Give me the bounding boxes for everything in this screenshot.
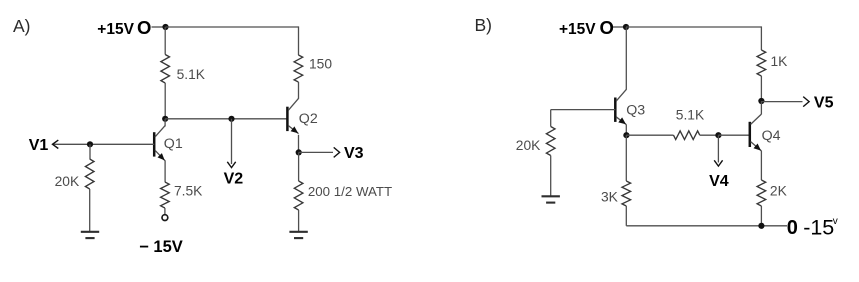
ground symbol (B) xyxy=(542,196,560,202)
node label V3 xyxy=(344,145,364,162)
svg-text:5.1K: 5.1K xyxy=(676,107,705,122)
node label V5 xyxy=(814,95,834,112)
transistor Q2 emitter arrow xyxy=(291,126,299,133)
wire: bottom rail (B) xyxy=(626,225,787,227)
wire: top rail (A) xyxy=(166,26,299,28)
transistor Q4 base bar xyxy=(749,122,752,147)
supply label 0 -15V (B) xyxy=(787,216,838,240)
wire: V1 base wire xyxy=(53,143,155,145)
value label 5.1K (A) xyxy=(177,67,206,82)
resistor 5.1K (A) xyxy=(161,55,170,84)
wire: node to R 5.1K top (A) xyxy=(164,27,166,55)
transistor Q2 base bar xyxy=(286,107,289,131)
wire: V4 probe line xyxy=(717,135,719,162)
circuit label B) xyxy=(475,15,493,35)
wire: +15V terminal to node (B) xyxy=(613,26,626,28)
svg-text:A): A) xyxy=(13,16,31,36)
wire: base rail Q1-collector to Q2 base xyxy=(165,118,287,120)
terminal circle -15V xyxy=(162,215,168,221)
supply +15V terminal (B) xyxy=(559,17,614,38)
svg-text:2K: 2K xyxy=(770,184,788,199)
supply +15V terminal (A) xyxy=(97,17,151,38)
node label V4 xyxy=(709,173,729,190)
wire: Q1 collector to node xyxy=(164,119,166,127)
resistor 20K (B) xyxy=(546,127,555,156)
wire: V5 probe line xyxy=(761,101,802,103)
junction dot: V5 node xyxy=(758,98,764,104)
transistor Q3 emitter arrow xyxy=(618,117,626,124)
junction dot: Q3 emitter node xyxy=(623,132,629,138)
resistor 200 1/2 WATT xyxy=(294,181,303,210)
transistor Q1 collector stroke xyxy=(155,126,165,137)
wire: top rail (B) xyxy=(626,26,761,28)
resistor 7.5K xyxy=(161,182,170,208)
value label 3K xyxy=(601,189,619,204)
value label 1K xyxy=(771,54,789,69)
junction dot: +15V node (A) xyxy=(162,24,168,30)
transistor Q4 emitter stroke xyxy=(751,142,762,151)
value label 5.1K (B) xyxy=(676,107,705,122)
wire: R 7.5K to -15V terminal xyxy=(164,208,166,215)
svg-text:O: O xyxy=(600,17,614,38)
wire: Q1 emitter to R 7.5K xyxy=(164,161,166,183)
svg-text:200 1/2 WATT: 200 1/2 WATT xyxy=(308,184,392,199)
wire: 3K to bottom rail corner xyxy=(625,206,627,226)
wire: R 1K to V5 node xyxy=(760,76,762,101)
svg-text:3K: 3K xyxy=(601,189,619,204)
svg-text:O: O xyxy=(137,17,151,38)
svg-text:V2: V2 xyxy=(224,170,244,187)
wire: V5 node down to Q4 collector xyxy=(760,101,762,114)
transistor Q1 base bar xyxy=(153,132,156,156)
resistor 20K (A) xyxy=(85,159,94,189)
value label 200 1/2 WATT xyxy=(308,184,392,199)
wire: R 5.1K bottom to base rail node (A) xyxy=(164,83,166,119)
resistor 3K xyxy=(622,181,631,206)
supply label -15V (A) xyxy=(139,238,183,256)
value label 7.5K xyxy=(174,183,203,198)
transistor Q1 emitter arrow xyxy=(158,153,165,160)
svg-text:20K: 20K xyxy=(55,174,80,189)
junction dot: V4 node xyxy=(715,132,721,138)
wire: R 2K to bottom rail node xyxy=(760,206,762,226)
ground symbol (A left) xyxy=(81,232,99,238)
junction dot: Q1 collector node xyxy=(162,116,168,122)
wire: 3K top from Q3 emitter node xyxy=(625,135,627,181)
svg-text:V3: V3 xyxy=(344,145,364,162)
transistor Q4 emitter arrow xyxy=(754,144,762,151)
wire: Q2 emitter to V3 node xyxy=(298,135,300,153)
wire: V3 node to R 200 xyxy=(298,152,300,181)
wire: Q3 base to left corner xyxy=(551,109,616,111)
wire: mid rail to R 5.1K (B) xyxy=(626,134,673,136)
resistor 1K xyxy=(757,50,766,76)
svg-text:B): B) xyxy=(475,15,493,35)
resistor 2K xyxy=(757,180,766,206)
transistor Q2 emitter stroke xyxy=(288,126,298,134)
wire: R 20K to ground (A) xyxy=(89,189,91,232)
svg-text:V4: V4 xyxy=(709,173,729,190)
resistor 150 xyxy=(294,55,303,82)
label Q2 xyxy=(299,111,318,127)
transistor Q4 collector stroke xyxy=(751,114,762,124)
value label 150 xyxy=(309,57,332,72)
value label 2K xyxy=(770,184,788,199)
node label V2 xyxy=(224,170,244,187)
wire: top rail corner down to R 1K xyxy=(760,26,762,50)
svg-text:0: 0 xyxy=(787,217,798,239)
wire: node down to Q3 collector xyxy=(625,27,627,90)
junction dot: 20K top node (A) xyxy=(87,141,93,147)
wire: R 150 to Q2 collector xyxy=(298,82,300,99)
svg-text:Q3: Q3 xyxy=(626,103,645,119)
label Q4 xyxy=(762,128,781,144)
circuit label A) xyxy=(13,16,31,36)
transistor Q3 emitter stroke xyxy=(616,117,626,125)
resistor 5.1K (B) horizontal xyxy=(674,131,700,140)
wire: Q4 emitter to R 2K xyxy=(760,151,762,180)
ground symbol (A right) xyxy=(289,232,307,238)
svg-text:7.5K: 7.5K xyxy=(174,183,203,198)
transistor Q1 emitter stroke xyxy=(155,150,165,161)
svg-text:-15: -15 xyxy=(803,216,834,240)
svg-text:1K: 1K xyxy=(771,54,789,69)
junction dot: +15V node (B) xyxy=(623,24,629,30)
svg-text:Q2: Q2 xyxy=(299,111,318,127)
arrowhead: V3 (right chevron) xyxy=(334,147,340,157)
svg-text:Q4: Q4 xyxy=(762,128,781,144)
transistor Q3 collector stroke xyxy=(616,89,626,101)
wire: R 5.1K to V4 node xyxy=(700,134,719,136)
svg-text:Q1: Q1 xyxy=(164,136,183,152)
node label V1 xyxy=(29,137,49,154)
svg-text:150: 150 xyxy=(309,57,332,72)
arrowhead: V1 (left chevron) xyxy=(53,140,59,148)
svg-text:V1: V1 xyxy=(29,137,49,154)
wire: R 20K to ground (B) xyxy=(550,156,552,197)
wire: R 200 to ground (A) xyxy=(298,210,300,232)
wire: +15V terminal to node (A) xyxy=(152,26,166,28)
svg-text:20K: 20K xyxy=(516,138,541,153)
junction dot: V2 node xyxy=(228,116,234,122)
value label 20K (B) xyxy=(516,138,541,153)
transistor Q3 base bar xyxy=(614,98,617,122)
arrowhead: V2 (down chevron) xyxy=(227,162,235,168)
svg-text:+15V: +15V xyxy=(97,21,134,38)
arrowhead: V5 (right chevron) xyxy=(803,97,809,107)
svg-text:− 15V: − 15V xyxy=(139,238,183,256)
label Q1 xyxy=(164,136,183,152)
value label 20K (A) xyxy=(55,174,80,189)
svg-text:V5: V5 xyxy=(814,95,834,112)
wire: V3 probe line xyxy=(299,151,333,153)
wire: top rail corner down to R 150 (A) xyxy=(298,26,300,55)
wire: node to R 20K (A) xyxy=(89,144,91,159)
svg-text:5.1K: 5.1K xyxy=(177,67,206,82)
label Q3 xyxy=(626,103,645,119)
arrowhead: V4 (down chevron) xyxy=(714,160,722,166)
wire: V4 node to Q4 base xyxy=(718,134,749,136)
transistor Q2 collector stroke xyxy=(288,98,298,110)
wire: corner down to R 20K (B) xyxy=(550,110,552,127)
junction dot: V3 node xyxy=(296,149,302,155)
junction dot: bottom rail node (B) xyxy=(758,223,764,229)
svg-text:v: v xyxy=(833,216,838,227)
wire: V2 probe line xyxy=(231,119,233,164)
wire: Q3 emitter to mid node xyxy=(625,125,627,136)
svg-text:+15V: +15V xyxy=(559,21,596,38)
